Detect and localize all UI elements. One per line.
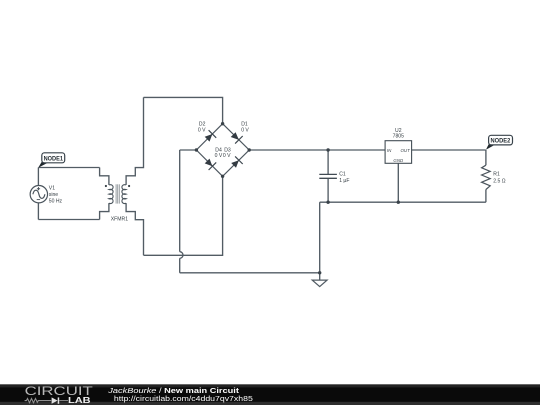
wire C1 top lead (327, 150, 329, 174)
junction dot C1 top (326, 148, 329, 151)
svg-text:XFMR1: XFMR1 (111, 217, 128, 223)
wire bottom rail (320, 201, 486, 203)
wire top rail to bridge top (144, 97, 223, 123)
wire U2 GND pin (397, 163, 399, 202)
diode bridge edges (196, 124, 249, 177)
diode D4 (205, 159, 217, 170)
wire bottom rail V1 loop (38, 219, 99, 221)
capacitor C1 (319, 174, 337, 178)
node NODE1 (38, 153, 64, 168)
svg-text:LAB: LAB (68, 396, 91, 405)
footer bar (0, 384, 540, 405)
wire secondary top jog (126, 97, 143, 184)
diode D1 (231, 132, 243, 143)
wire primary bottom jog (100, 203, 109, 219)
junction dot ground tap (318, 271, 321, 274)
svg-text:2.5 Ω: 2.5 Ω (493, 179, 505, 185)
svg-text:GND: GND (393, 158, 404, 163)
diode D3 (231, 156, 243, 167)
regulator U2 box (385, 141, 412, 164)
transformer core (116, 184, 119, 203)
wire V1 top vertical (37, 168, 39, 186)
logo diode (52, 397, 58, 403)
svg-text:1 µF: 1 µF (339, 178, 349, 184)
wire hop over AC wire (180, 252, 183, 259)
node NODE2 (486, 135, 513, 150)
diode D2 (205, 130, 217, 141)
svg-text:R1: R1 (493, 171, 500, 177)
svg-text:0 V: 0 V (241, 128, 249, 134)
wire bridge left down lower part (179, 258, 181, 273)
wire main rail bridge to U2 (249, 149, 385, 151)
wire bridge left down upper part (179, 150, 181, 252)
svg-text:7805: 7805 (393, 134, 404, 140)
voltage source V1 (30, 186, 47, 203)
svg-text:C1: C1 (339, 171, 346, 177)
junction dot U2 gnd (397, 201, 400, 204)
wire bottom ground run (180, 272, 320, 274)
transformer polarity dots (105, 185, 107, 187)
svg-text:0 V: 0 V (223, 153, 231, 159)
wire top rail NODE1 to transformer (38, 167, 99, 169)
resistor R1 (482, 165, 491, 189)
svg-text:50 Hz: 50 Hz (49, 198, 63, 204)
svg-text:NODE2: NODE2 (491, 138, 511, 145)
svg-text:V1: V1 (49, 186, 55, 192)
wire U2 OUT to R1 (412, 149, 486, 151)
logo resistor squiggle (25, 399, 52, 403)
svg-text:sine: sine (49, 192, 59, 198)
junction dot C1 bottom (326, 201, 329, 204)
wire R1 top lead (485, 150, 487, 165)
svg-text:http://circuitlab.com/c4ddu7qv: http://circuitlab.com/c4ddu7qv7xh85 (114, 394, 253, 403)
wire bottom AC to bridge bottom (144, 176, 223, 255)
svg-text:OUT: OUT (401, 148, 411, 153)
wire primary top jog (100, 168, 109, 185)
wire ground riser (319, 202, 321, 273)
wire bridge left vertex horizontal (180, 149, 197, 151)
ground (312, 280, 327, 287)
svg-text:NODE1: NODE1 (44, 155, 64, 162)
wire secondary bottom jog (126, 203, 143, 255)
transformer XFMR1 (109, 185, 126, 204)
wire R1 bottom lead (485, 190, 487, 203)
bridge junction dots (221, 122, 224, 125)
svg-text:0 V: 0 V (215, 153, 223, 159)
wire V1 bottom vertical (37, 203, 39, 220)
wire C1 bottom lead (327, 179, 329, 203)
wire ground stub (319, 273, 321, 280)
svg-text:0 V: 0 V (198, 128, 206, 134)
